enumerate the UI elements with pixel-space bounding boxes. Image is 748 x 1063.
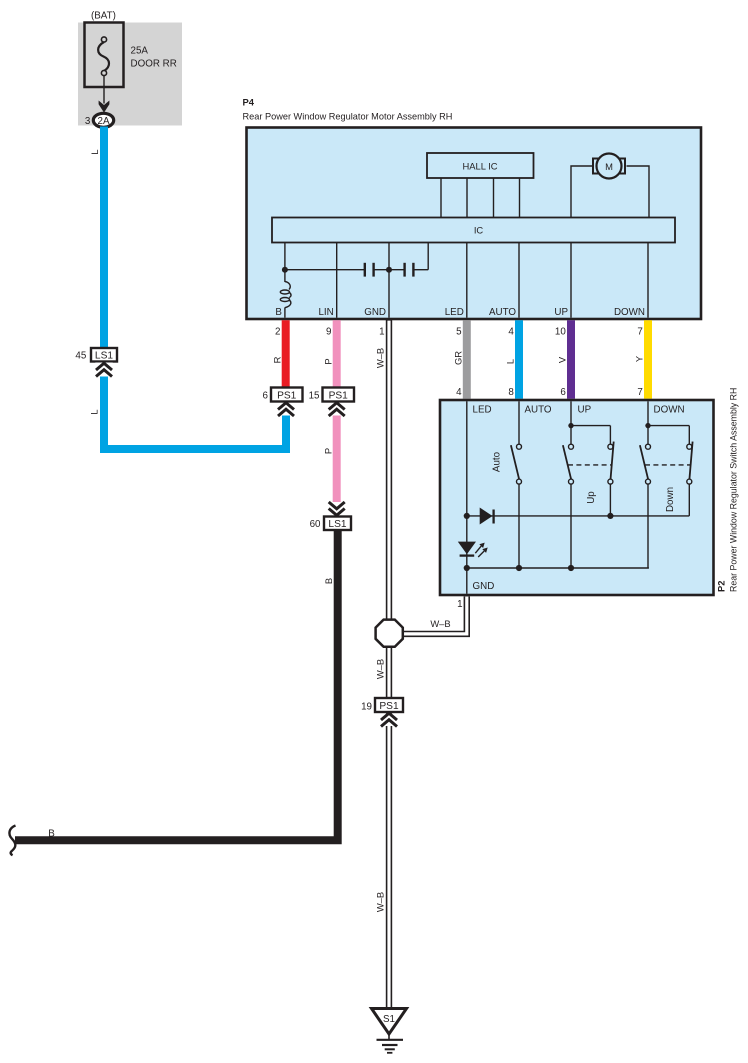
LED D2: [458, 542, 476, 555]
svg-text:W–B: W–B: [430, 618, 450, 629]
HALL IC box: [427, 153, 534, 178]
switch Up pair: [570, 401, 572, 444]
svg-text:P: P: [322, 448, 333, 454]
battery feed gray area: [78, 23, 182, 126]
svg-text:10: 10: [555, 327, 566, 338]
svg-text:V: V: [557, 356, 568, 363]
wire L blue to switch: [515, 320, 523, 398]
fuse 25A DOOR RR box: [85, 23, 124, 88]
chevron down above 60 LS1: [329, 502, 345, 509]
arrow into connector 2A: [99, 101, 110, 113]
svg-text:25A: 25A: [131, 46, 149, 57]
motor M wires: [571, 166, 593, 218]
ground S1: [372, 1009, 407, 1035]
svg-text:Y: Y: [634, 355, 645, 362]
LED arrows: [475, 546, 481, 553]
svg-text:S1: S1: [383, 1014, 395, 1025]
svg-text:LED: LED: [445, 307, 464, 318]
node junction B: [282, 267, 288, 273]
svg-text:5: 5: [456, 327, 462, 338]
svg-text:UP: UP: [578, 405, 592, 416]
P2 switch assembly box: [440, 400, 714, 595]
dashed link Down: [645, 464, 690, 466]
pin column LIN: [336, 243, 338, 318]
svg-text:W–B: W–B: [375, 348, 386, 368]
switch Down pair: [647, 401, 649, 444]
wire P pink upper: [333, 320, 341, 387]
fuse element: [98, 42, 109, 71]
svg-text:GND: GND: [473, 581, 495, 592]
chevron below 45 LS1: [95, 363, 112, 377]
hall ic to ic wires: [440, 178, 442, 218]
svg-text:L: L: [505, 359, 516, 364]
svg-text:4: 4: [456, 387, 462, 398]
svg-text:B: B: [275, 307, 282, 318]
svg-text:W–B: W–B: [375, 892, 386, 912]
capacitor network line: [285, 269, 364, 271]
connector 2A oval: [93, 113, 113, 127]
P4 motor assembly box: [247, 128, 702, 320]
svg-text:(BAT): (BAT): [91, 11, 116, 22]
chevron below 19 PS1: [380, 714, 398, 727]
capacitor C2: [403, 263, 405, 277]
svg-text:6: 6: [263, 391, 269, 402]
svg-text:9: 9: [326, 327, 331, 338]
svg-text:3: 3: [85, 116, 91, 127]
capacitor C1: [364, 263, 366, 277]
pin column UP: [570, 243, 572, 318]
svg-text:B: B: [48, 829, 55, 840]
wire V violet: [567, 320, 575, 398]
svg-text:AUTO: AUTO: [525, 405, 552, 416]
svg-text:6: 6: [560, 387, 566, 398]
svg-text:60: 60: [310, 519, 321, 530]
junction octagon: [376, 620, 403, 647]
wire GR gray: [463, 320, 471, 398]
svg-text:1: 1: [379, 327, 384, 338]
svg-text:19: 19: [361, 702, 372, 713]
node: [516, 565, 522, 571]
svg-text:Up: Up: [586, 491, 597, 504]
svg-text:LED: LED: [473, 405, 492, 416]
wire R red: [282, 320, 290, 387]
svg-text:15: 15: [309, 391, 320, 402]
node junction GND/cap: [386, 267, 392, 273]
node: [568, 565, 574, 571]
wire fuse to connector: [103, 76, 105, 104]
svg-text:1: 1: [457, 599, 462, 610]
bottom bus line: [467, 567, 649, 569]
LED column wire: [466, 401, 468, 593]
svg-text:LS1: LS1: [328, 519, 346, 530]
node: [464, 513, 470, 519]
svg-text:45: 45: [75, 351, 86, 362]
pin column LED: [466, 243, 468, 318]
svg-text:L: L: [89, 149, 100, 154]
svg-text:4: 4: [508, 327, 514, 338]
svg-text:Auto: Auto: [492, 451, 503, 472]
motor M: [597, 154, 622, 179]
switch Auto: [518, 401, 520, 444]
svg-text:2A: 2A: [98, 116, 110, 127]
svg-text:Rear Power Window Regulator Sw: Rear Power Window Regulator Switch Assem…: [729, 388, 739, 592]
dashed link Up: [568, 464, 611, 466]
svg-text:L: L: [89, 409, 100, 414]
wire Y yellow: [644, 320, 652, 398]
svg-text:HALL IC: HALL IC: [462, 161, 497, 172]
svg-text:7: 7: [637, 327, 642, 338]
chevron below 6 PS1: [278, 403, 294, 410]
svg-text:UP: UP: [554, 307, 568, 318]
wire B black: [15, 530, 338, 841]
svg-text:M: M: [605, 161, 613, 172]
diode D1: [480, 508, 493, 525]
inductor coil: [285, 282, 290, 290]
svg-text:GR: GR: [453, 351, 464, 365]
svg-text:PS1: PS1: [277, 391, 297, 402]
wire W-B branch from switch GND: [398, 596, 467, 634]
pin column GND: [388, 243, 390, 318]
IC box: [272, 218, 675, 243]
wire P pink lower: [333, 416, 341, 503]
svg-text:DOOR RR: DOOR RR: [131, 59, 177, 70]
wire L blue from fuse to LS1 and PS1: [104, 127, 286, 450]
svg-text:8: 8: [508, 387, 514, 398]
svg-text:PS1: PS1: [329, 391, 349, 402]
node: [607, 513, 613, 519]
wire continuation squiggle: [9, 826, 15, 856]
svg-text:R: R: [271, 356, 282, 363]
pin column B: [284, 243, 286, 283]
svg-text:DOWN: DOWN: [654, 405, 685, 416]
svg-text:LS1: LS1: [95, 351, 113, 362]
svg-text:7: 7: [637, 387, 642, 398]
node: [464, 565, 470, 571]
pin column DOWN: [647, 243, 649, 318]
svg-text:Rear Power Window Regulator Mo: Rear Power Window Regulator Motor Assemb…: [243, 112, 453, 122]
pin column AUTO: [518, 243, 520, 318]
svg-text:P2: P2: [716, 581, 727, 592]
svg-text:P4: P4: [243, 97, 255, 108]
chevron below 15 PS1: [329, 403, 345, 410]
svg-text:2: 2: [275, 327, 280, 338]
svg-text:GND: GND: [364, 307, 386, 318]
svg-text:Down: Down: [665, 487, 676, 512]
svg-text:B: B: [323, 578, 334, 584]
svg-text:PS1: PS1: [379, 701, 399, 712]
svg-text:IC: IC: [474, 225, 484, 236]
svg-text:P: P: [322, 358, 333, 364]
svg-text:DOWN: DOWN: [614, 307, 645, 318]
svg-text:W–B: W–B: [375, 659, 386, 679]
svg-text:LIN: LIN: [318, 307, 333, 318]
diode line: [467, 515, 690, 517]
wire W-B main double line: [386, 319, 392, 1010]
svg-text:AUTO: AUTO: [489, 307, 516, 318]
